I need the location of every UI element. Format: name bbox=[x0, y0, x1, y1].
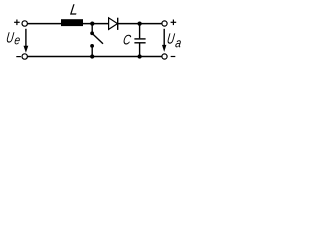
node switch to bottom rail bbox=[90, 54, 94, 58]
arrow U_e bbox=[24, 29, 29, 53]
wire switch branch upper bbox=[91, 24, 93, 32]
label U_a bbox=[168, 33, 181, 47]
label U_e bbox=[7, 32, 20, 44]
switch S lever bbox=[93, 34, 103, 44]
arrow U_a bbox=[162, 29, 166, 52]
diode D bbox=[109, 18, 118, 30]
node capacitor bottom bbox=[137, 54, 141, 58]
wire top rail left segment bbox=[27, 23, 61, 25]
capacitor C bbox=[134, 39, 145, 43]
wire top rail from diode to output bbox=[118, 23, 162, 25]
terminal input plus bbox=[22, 21, 27, 26]
wire capacitor lower lead bbox=[139, 43, 141, 56]
label C bbox=[124, 35, 132, 45]
switch S bottom contact bbox=[90, 44, 94, 48]
label plus input bbox=[14, 20, 20, 26]
wire switch branch lower bbox=[91, 47, 93, 57]
label minus input bbox=[16, 56, 21, 58]
label L bbox=[70, 4, 76, 14]
wire top rail from inductor to diode bbox=[83, 23, 108, 25]
label minus output bbox=[171, 56, 176, 58]
wire capacitor upper lead bbox=[139, 24, 141, 39]
terminal input minus bbox=[22, 54, 27, 59]
node capacitor top bbox=[137, 21, 141, 25]
switch S top contact bbox=[90, 31, 94, 35]
inductor L bbox=[61, 19, 83, 26]
node junction after L bbox=[90, 21, 94, 25]
terminal output plus bbox=[162, 21, 167, 26]
wire bottom rail bbox=[27, 56, 161, 58]
label plus output bbox=[171, 20, 177, 26]
terminal output minus bbox=[162, 54, 167, 59]
